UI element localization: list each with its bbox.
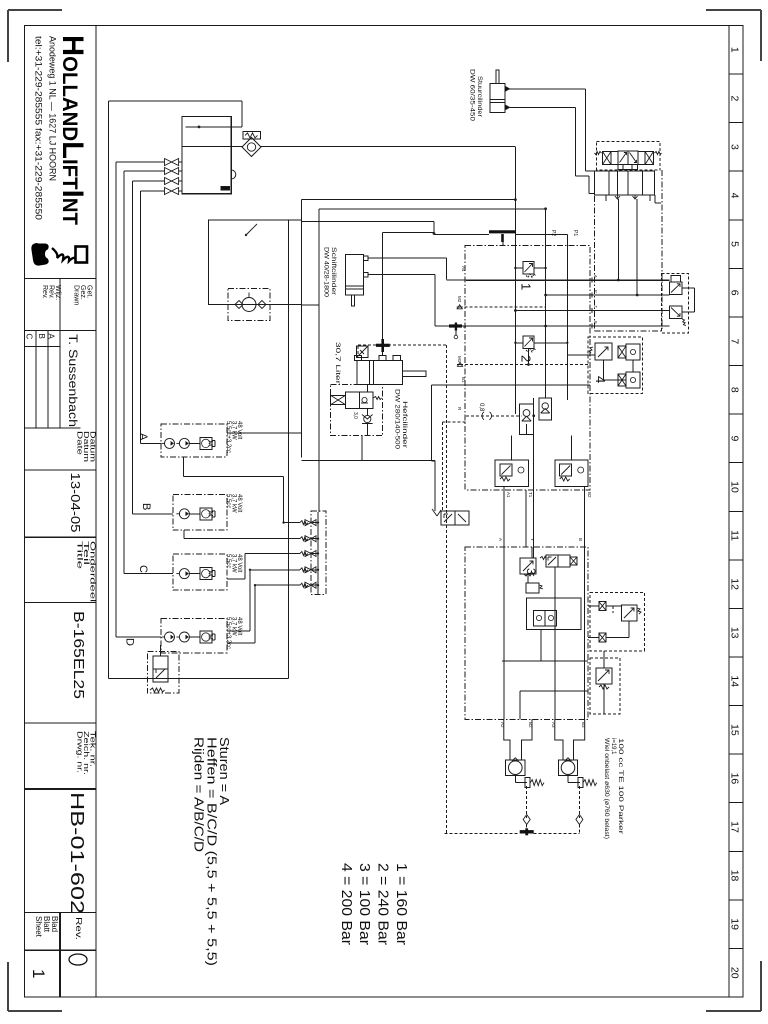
svg-text:3,0: 3,0 [352, 412, 358, 419]
svg-text:16: 16 [729, 773, 741, 785]
hef check valve 3.0 bar [364, 415, 371, 422]
hef cluster dashed enclosure top edge [358, 344, 446, 346]
vertical gallery x567 [566, 234, 568, 400]
svg-text:P1: P1 [572, 230, 578, 236]
svg-text:14: 14 [729, 675, 741, 687]
svg-text:S: S [462, 325, 467, 328]
logo phone icon [32, 244, 48, 265]
pilot line M2 [460, 306, 546, 308]
motor MB [200, 508, 212, 520]
relief valve 4a [595, 343, 612, 360]
manifold check valve MCV2 [300, 537, 308, 541]
cylinder ports [505, 86, 510, 91]
wire A2 gallery [503, 547, 505, 719]
svg-text:5,5cc+3,2cc: 5,5cc+3,2cc [225, 617, 231, 649]
check valve tank CV2 [165, 168, 179, 175]
svg-text:Sheet: Sheet [34, 916, 43, 938]
wire steering cylinder B [509, 106, 576, 108]
svg-text:M: M [207, 441, 214, 446]
pump group C dashed box [173, 554, 227, 590]
steering dash-dot enclosure [594, 196, 596, 331]
counterbalance valve left [495, 460, 528, 486]
wire suction riser to pump C [123, 171, 125, 574]
title block right edge [95, 26, 97, 998]
wire suction riser to pump A [140, 191, 142, 443]
relief valve 3 [520, 558, 536, 574]
hef cylinder [357, 361, 402, 385]
wire to block 4 [567, 354, 595, 356]
svg-text:Stuurcilinder: Stuurcilinder [476, 76, 482, 117]
wire filter to valve block T line [261, 145, 515, 147]
vertical gallery x515 [514, 246, 516, 415]
wires hef valve [366, 385, 368, 392]
brake M2 [567, 776, 569, 783]
junction dots block1 [514, 309, 517, 312]
wire hand pump to tee [302, 221, 434, 223]
svg-text:P2: P2 [550, 230, 556, 236]
valve block 3 boundary [465, 547, 588, 719]
steering valve squares [618, 151, 628, 165]
diverter valve block dashed box [662, 274, 689, 333]
lever valve [441, 511, 455, 525]
steering valve subplate [595, 171, 655, 195]
wire steering cylinder A [509, 88, 586, 90]
solenoid valve 4b [618, 346, 626, 358]
pilot check valve left [520, 404, 534, 435]
svg-text:15: 15 [729, 724, 741, 736]
motor MC [200, 568, 212, 580]
main bus P [546, 294, 670, 296]
svg-text:Anodeweg 1 NL — 1627 LJ HOORN: Anodeweg 1 NL — 1627 LJ HOORN [47, 36, 58, 181]
relief valve 1 [523, 262, 534, 274]
wire to manifold check 4 [227, 630, 250, 632]
svg-text:A: A [594, 275, 599, 278]
svg-text:M: M [207, 571, 214, 576]
svg-text:0,8: 0,8 [478, 403, 484, 412]
motor MD [200, 631, 212, 643]
svg-text:DW 280/140-500: DW 280/140-500 [394, 389, 401, 449]
tank oil level mark [221, 187, 230, 191]
pilot line R with orifice [466, 415, 521, 417]
wire suction 2 [124, 170, 164, 172]
wire B2 to motor1 [522, 719, 533, 760]
bold tee to P1 [489, 230, 516, 233]
svg-text:A4: A4 [461, 266, 466, 272]
manifold check valve MCV4 [300, 568, 308, 572]
svg-text:4: 4 [729, 193, 741, 199]
tank suction line [182, 145, 242, 147]
aux block right of 3 upper [590, 593, 645, 651]
main bus T [515, 310, 669, 312]
svg-text:13: 13 [729, 627, 741, 639]
manifold check valve MCV1 [300, 521, 308, 525]
svg-text:9: 9 [729, 435, 741, 441]
steering valve solenoid left [603, 152, 612, 165]
pilot line M1 [460, 364, 590, 366]
svg-text:Title: Title [76, 541, 85, 569]
manifold gallery line [317, 512, 319, 594]
svg-text:D: D [124, 638, 136, 646]
pump B1 circle [179, 509, 189, 519]
shuttle diamond 2 [576, 815, 583, 825]
svg-text:1: 1 [519, 283, 534, 290]
svg-text:DW 60/35-450: DW 60/35-450 [469, 69, 475, 122]
motor MA [200, 437, 212, 449]
bold tee hef [376, 344, 390, 347]
svg-text:11: 11 [729, 530, 741, 541]
wire pump D to manifold [227, 642, 255, 644]
check valve tank CV1 [165, 159, 179, 166]
wire pump A to manifold [182, 457, 184, 476]
diverter outlet stubs [682, 287, 695, 289]
svg-text:HOLLANDLIFTINT: HOLLANDLIFTINT [56, 35, 89, 225]
bold tee on S line [449, 324, 462, 327]
svg-text:M: M [207, 634, 214, 639]
manifold pressure riser [318, 209, 320, 512]
wire suction 1 [116, 161, 164, 163]
wheel motor M2 [558, 760, 577, 776]
svg-text:3: 3 [524, 568, 538, 575]
svg-text:5: 5 [729, 241, 741, 247]
relief valve 2 [523, 336, 534, 348]
wires shuttle [540, 630, 542, 661]
wire schift A [368, 257, 447, 259]
svg-text:T. Sussenbach: T. Sussenbach [66, 334, 80, 427]
steering valve center bridge [618, 165, 638, 170]
svg-text:DW 40/28-1800: DW 40/28-1800 [323, 247, 329, 298]
wire suction riser to pump D [115, 162, 117, 637]
wire A3 to motor2 [555, 719, 563, 760]
brake pilot lines [526, 786, 528, 818]
valve 3 solenoid valve [546, 555, 558, 567]
svg-text:i=19,1: i=19,1 [610, 738, 616, 755]
steering cylinder [490, 84, 505, 113]
wire A2 to motor1 [504, 719, 510, 760]
svg-text:5,5cc+3,2cc: 5,5cc+3,2cc [225, 421, 231, 453]
wire tee to P1 port [516, 233, 567, 235]
wire suction 4 [141, 190, 165, 192]
svg-text:Drwg. nr.: Drwg. nr. [76, 731, 85, 773]
wire suction riser to pump B [132, 181, 134, 514]
schift cylinder [345, 255, 363, 295]
vertical gallery x545 [545, 246, 547, 399]
wire pump line to blocks upper [301, 200, 303, 458]
hef solenoid valve [331, 395, 346, 404]
svg-text:T1: T1 [528, 492, 533, 498]
svg-text:Wiel onbelast ø630 (ø760 belas: Wiel onbelast ø630 (ø760 belast) [603, 738, 609, 839]
wire hand pump bottom stub [302, 304, 319, 306]
wire pump line to blocks lower [319, 208, 546, 210]
svg-text:18: 18 [729, 870, 741, 882]
svg-text:HB-01-602: HB-01-602 [67, 792, 87, 914]
valve block 4 dashed box [588, 337, 643, 393]
svg-text:Rijden = A/B/C/D: Rijden = A/B/C/D [192, 737, 207, 852]
svg-text:Rev.: Rev. [41, 285, 48, 299]
wires counterbalance to ports [503, 487, 505, 548]
pump group B dashed box [173, 494, 227, 530]
wire T return drop [514, 146, 516, 245]
svg-text:5,5cc: 5,5cc [225, 494, 231, 508]
subplate flow arrows [615, 195, 620, 199]
svg-text:A1: A1 [506, 492, 511, 498]
check valve tank CV4 [165, 188, 179, 195]
shuttle block center [527, 598, 582, 630]
svg-text:tel:+31-229-285555 fax:+31-229: tel:+31-229-285555 fax:+31-229-285550 [33, 36, 44, 220]
wire tank top return [108, 100, 242, 102]
svg-text:Drawn: Drawn [73, 285, 80, 305]
vertical gallery x533 [533, 398, 535, 558]
bold tee brake line [520, 830, 534, 833]
svg-text:B: B [594, 321, 599, 324]
pilot check valve right [539, 398, 552, 420]
hand pump circle [242, 298, 256, 312]
svg-text:M2: M2 [457, 296, 462, 303]
wire B1 return [431, 384, 590, 386]
wire P1 drop [545, 209, 547, 246]
wire pump B to manifold [183, 530, 185, 539]
svg-text:Rev.: Rev. [74, 917, 84, 940]
brake release dashed line [445, 833, 520, 835]
svg-text:Schiftcilinder: Schiftcilinder [330, 247, 336, 295]
port ticks diverter [591, 278, 593, 283]
brake M1 [514, 776, 516, 783]
manifold check valve MCV3 [300, 552, 308, 556]
svg-text:R: R [457, 407, 462, 411]
wire return left loop [107, 101, 109, 679]
svg-text:4 = 200 Bar: 4 = 200 Bar [338, 863, 355, 945]
pump D circles [165, 632, 175, 642]
svg-text:B: B [140, 503, 152, 510]
wire B gallery [584, 547, 586, 719]
svg-text:B: B [578, 538, 583, 541]
tank breather [231, 170, 236, 179]
wire steering B down [636, 199, 638, 295]
wire suction 3 [133, 180, 165, 182]
wire steering A down [617, 199, 619, 280]
svg-text:1 = 160 Bar: 1 = 160 Bar [393, 863, 410, 945]
check valve tank CV3 [165, 178, 179, 185]
svg-text:19: 19 [729, 918, 741, 930]
svg-text:P: P [594, 290, 599, 293]
manifold dashed box [311, 511, 326, 594]
svg-text:2 = 240 Bar: 2 = 240 Bar [375, 863, 392, 945]
sheet corner trim marks [8, 9, 62, 11]
hand pump check diamonds [235, 301, 266, 309]
svg-text:B1: B1 [461, 377, 466, 383]
hef cylinder ports [355, 356, 362, 361]
wheel motor M1 [506, 760, 525, 776]
small valve below relief 3 [526, 583, 539, 593]
svg-text:17: 17 [729, 821, 741, 833]
rev value O [69, 954, 87, 965]
wire pump C to manifold [227, 578, 245, 580]
filter F1 with bypass [242, 138, 261, 157]
svg-text:C: C [25, 334, 34, 340]
svg-text:3 = 100 Bar: 3 = 100 Bar [356, 863, 373, 945]
svg-text:6: 6 [729, 290, 741, 296]
svg-text:A: A [498, 538, 503, 541]
pump A1 circles [165, 438, 175, 448]
diverter valve squares [670, 282, 683, 295]
svg-text:2: 2 [729, 95, 741, 101]
steering valve solenoid right [638, 152, 645, 165]
pump C1 circle [179, 569, 189, 579]
tank inner return line [186, 126, 242, 128]
wire pump A output [227, 432, 302, 434]
svg-text:M1: M1 [457, 356, 462, 363]
steering valve SV1 dashed box [597, 142, 661, 171]
svg-text:7: 7 [729, 338, 741, 344]
wire hef drain [361, 436, 363, 461]
svg-text:B3: B3 [581, 722, 586, 728]
svg-text:B: B [37, 334, 46, 339]
suction valve box below D [147, 652, 178, 694]
svg-text:1: 1 [29, 969, 48, 978]
hand pump enclosure [208, 220, 301, 305]
hef valve dashed box [331, 385, 383, 436]
wire schift B to S port [368, 274, 435, 276]
pressure switch [357, 346, 369, 358]
hand pump lever [246, 224, 257, 235]
tank T1 [182, 116, 231, 193]
main bus B [466, 325, 670, 327]
svg-text:A: A [47, 334, 56, 340]
svg-text:13-04-05: 13-04-05 [68, 473, 83, 533]
aux block right of 3 lower [590, 658, 620, 714]
column number strip line [728, 26, 730, 998]
svg-text:30,7 Liter: 30,7 Liter [334, 342, 341, 385]
svg-text:8: 8 [729, 387, 741, 393]
title block dividers [25, 277, 97, 279]
valve block 1 boundary [465, 246, 590, 491]
schift ports [364, 256, 368, 261]
pump group A dashed box [161, 424, 227, 457]
diverter solenoid [671, 276, 681, 282]
wire valve3 connections [531, 547, 533, 558]
lever handle [432, 509, 441, 516]
svg-text:B2: B2 [587, 492, 592, 498]
svg-text:Y: Y [530, 538, 535, 541]
solenoid valve 4c [618, 374, 626, 386]
svg-text:Hefcilinder: Hefcilinder [401, 401, 408, 449]
pump group D dashed box [161, 619, 227, 653]
svg-text:A: A [137, 433, 149, 441]
svg-text:2: 2 [519, 355, 534, 362]
svg-text:3: 3 [729, 144, 741, 150]
svg-text:C: C [137, 565, 149, 573]
svg-text:Date: Date [76, 431, 85, 455]
wire B3 to motor2 [574, 719, 585, 760]
svg-text:100 cc TE 100 Parker: 100 cc TE 100 Parker [617, 738, 623, 834]
wire tee to cylinder port [382, 352, 384, 356]
counterbalance valve right [555, 460, 588, 486]
svg-text:10: 10 [729, 481, 741, 493]
svg-text:12: 12 [729, 578, 741, 590]
shuttle diamond 1 [523, 815, 530, 825]
svg-text:M: M [207, 511, 214, 516]
manifold check valve MCV5 [300, 583, 308, 587]
main bus A [447, 279, 466, 281]
wires valve to subplate [605, 170, 607, 171]
hand pump dashed box [228, 289, 270, 321]
svg-text:20: 20 [729, 967, 741, 979]
svg-text:5,5cc: 5,5cc [225, 554, 231, 568]
hef cluster dashed enclosure right edge [445, 345, 447, 834]
wire tee up to P line [382, 233, 384, 339]
svg-text:B-165EL25: B-165EL25 [70, 611, 87, 699]
pilot R branch to release valve [443, 421, 466, 423]
svg-text:1: 1 [729, 47, 741, 53]
